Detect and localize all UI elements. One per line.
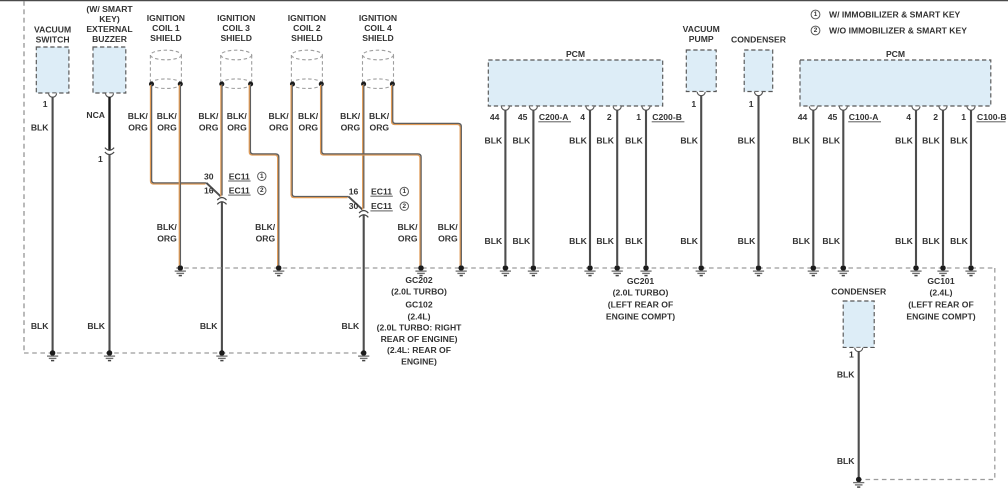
svg-text:ORG: ORG (398, 234, 418, 244)
vacuum pump pin notch (697, 92, 705, 96)
svg-text:BLK/: BLK/ (269, 111, 290, 121)
wire PCM C100 pin BLK to ground (x=916) (915, 110, 917, 265)
svg-text:ORG: ORG (157, 123, 177, 133)
svg-text:30: 30 (349, 201, 359, 211)
svg-text:BLK: BLK (625, 236, 643, 246)
svg-text:BLK: BLK (837, 456, 855, 466)
ground G10 pcm200 (528, 265, 539, 275)
svg-text:BLK: BLK (792, 136, 810, 146)
svg-text:BLK: BLK (822, 136, 840, 146)
svg-text:GC101: GC101 (927, 276, 954, 286)
wire condenser lower BLK to ground G21 (858, 351, 860, 478)
vacuum pump (686, 50, 716, 92)
svg-text:IGNITION: IGNITION (359, 13, 397, 23)
svg-text:BLK: BLK (485, 236, 503, 246)
svg-text:ORG: ORG (227, 123, 247, 133)
svg-text:BLK: BLK (822, 236, 840, 246)
PCM C100 pin notch (809, 106, 817, 110)
legend note 1: W/ IMMOBILIZER & SMART KEY (811, 10, 820, 19)
svg-text:BLK/: BLK/ (227, 111, 248, 121)
svg-text:BLK: BLK (596, 236, 614, 246)
svg-text:CONDENSER: CONDENSER (731, 35, 787, 45)
wire coil3 right pin BLK/ORG to ground G6 (250, 84, 278, 265)
wire splice EC11 no.1 BLK to ground G3 (221, 202, 223, 352)
condenser (lower) pin notch (855, 348, 863, 352)
svg-text:BLK: BLK (569, 136, 587, 146)
PCM C200 pin notch (586, 106, 594, 110)
svg-text:SWITCH: SWITCH (36, 35, 70, 45)
svg-text:2: 2 (403, 203, 407, 210)
ground G7 coil2 GC202 (415, 265, 426, 275)
ground G4 splice2 (358, 350, 369, 360)
splice connector EC11 no.2 symbol (359, 211, 368, 214)
svg-text:C100-B: C100-B (977, 112, 1007, 122)
left dashed page border (23, 1, 25, 353)
wire coil1 left pin BLK/ORG to splice EC11 (152, 84, 207, 183)
wire PCM C200 pin BLK to ground (x=646) (645, 110, 647, 265)
legend ref 1 at splice EC11 no.2 (400, 187, 408, 195)
wire buzzer BLK lower segment (108, 155, 110, 352)
svg-text:BLK/: BLK/ (157, 222, 178, 232)
PCM C200 pin notch (501, 106, 509, 110)
svg-text:44: 44 (798, 112, 808, 122)
svg-text:EC11: EC11 (229, 171, 250, 181)
svg-text:ENGINE COMPT): ENGINE COMPT) (906, 312, 975, 322)
wire PCM C200 pin BLK to ground (x=533.4) (532, 110, 534, 265)
svg-text:BLK: BLK (200, 321, 218, 331)
svg-text:COIL 1: COIL 1 (152, 23, 180, 33)
wire vacuum switch BLK to ground G1 (52, 97, 54, 352)
svg-text:IGNITION: IGNITION (147, 13, 185, 23)
svg-text:BLK: BLK (625, 136, 643, 146)
svg-text:1: 1 (260, 173, 264, 180)
svg-text:ORG: ORG (199, 123, 219, 133)
svg-text:GC201: GC201 (627, 276, 654, 286)
svg-text:BLK/: BLK/ (255, 222, 276, 232)
wire coil4 right pin BLK/ORG to ground G8 (393, 84, 462, 265)
external buzzer (w/ smart key) (93, 47, 126, 93)
wire coil2 left pin BLK/ORG to splice EC11 no.2 (292, 84, 348, 197)
svg-text:4: 4 (580, 112, 585, 122)
right dashed bus drop (861, 268, 995, 480)
svg-text:BLK: BLK (31, 123, 49, 133)
svg-text:(2.0L TURBO): (2.0L TURBO) (391, 287, 447, 297)
PCM (C200) (488, 60, 662, 106)
svg-text:W/ IMMOBILIZER & SMART KEY: W/ IMMOBILIZER & SMART KEY (829, 10, 961, 20)
svg-text:COIL 3: COIL 3 (222, 23, 250, 33)
ground G21 condenser lower (853, 477, 864, 487)
svg-text:BUZZER: BUZZER (92, 34, 128, 44)
svg-text:NCA: NCA (86, 110, 105, 120)
svg-text:ENGINE COMPT): ENGINE COMPT) (606, 312, 675, 322)
svg-text:PUMP: PUMP (689, 34, 714, 44)
svg-text:(2.4L: REAR OF: (2.4L: REAR OF (387, 345, 451, 355)
ground G2 buzzer (104, 350, 115, 360)
svg-text:2: 2 (814, 27, 818, 34)
svg-text:BLK: BLK (485, 136, 503, 146)
svg-text:ORG: ORG (157, 234, 177, 244)
ground G9 pcm200 (500, 265, 511, 275)
svg-text:BLK: BLK (680, 236, 698, 246)
wire PCM C200 pin BLK to ground (x=617.2) (616, 110, 618, 265)
svg-text:BLK: BLK (680, 136, 698, 146)
ignition coil 2 shield (290, 50, 324, 88)
svg-text:SHIELD: SHIELD (362, 33, 394, 43)
condenser (upper) (744, 50, 773, 92)
svg-text:GC202: GC202 (405, 275, 432, 285)
svg-text:BLK: BLK (895, 136, 913, 146)
svg-text:BLK/: BLK/ (397, 222, 418, 232)
svg-text:1: 1 (636, 112, 641, 122)
wire PCM C100 pin BLK to ground (x=813.3) (812, 110, 814, 265)
svg-text:ENGINE): ENGINE) (401, 356, 437, 366)
splice connector EC11 no.1 symbol (217, 198, 226, 201)
legend ref 1 at splice EC11 no.1 (258, 172, 266, 180)
ground G3 splice1 (216, 350, 227, 360)
ground G11 pcm200 (584, 265, 595, 275)
ground G19 pcm100 (937, 265, 948, 275)
svg-text:(LEFT REAR OF: (LEFT REAR OF (608, 300, 673, 310)
svg-text:4: 4 (906, 112, 911, 122)
svg-text:BLK: BLK (596, 136, 614, 146)
wire condenser upper BLK to ground (757, 95, 759, 265)
wire PCM C100 pin BLK to ground (x=971) (970, 110, 972, 265)
svg-text:45: 45 (828, 112, 838, 122)
svg-text:BLK: BLK (922, 136, 940, 146)
svg-text:ORG: ORG (370, 123, 390, 133)
ground G5 coil1 (175, 265, 186, 275)
svg-text:(LEFT REAR OF: (LEFT REAR OF (908, 300, 973, 310)
svg-text:BLK: BLK (895, 236, 913, 246)
legend ref 2 at splice EC11 no.2 (400, 202, 408, 210)
svg-text:1: 1 (961, 112, 966, 122)
svg-text:16: 16 (204, 185, 214, 195)
svg-text:ORG: ORG (299, 123, 319, 133)
svg-text:BLK: BLK (792, 236, 810, 246)
svg-text:BLK: BLK (922, 236, 940, 246)
svg-text:SHIELD: SHIELD (291, 33, 323, 43)
PCM C200 pin notch (642, 106, 650, 110)
wire coil3 left pin BLK/ORG to splice EC11 (221, 84, 223, 196)
svg-text:BLK: BLK (513, 236, 531, 246)
lower ground bus (dashed) (24, 352, 367, 354)
svg-text:BLK/: BLK/ (298, 111, 319, 121)
wire coil1 right pin BLK/ORG to ground G5 (179, 84, 181, 265)
ground G16 pcm100 (808, 265, 819, 275)
vacuum switch (36, 47, 69, 93)
wire vacuum pump BLK to ground (700, 95, 702, 265)
svg-text:VACUUM: VACUUM (34, 25, 71, 35)
svg-text:CONDENSER: CONDENSER (831, 287, 887, 297)
wire coil2 right pin BLK/ORG to ground G7 (322, 84, 421, 265)
svg-text:30: 30 (204, 171, 214, 181)
svg-text:BLK: BLK (837, 370, 855, 380)
ground G13 pcm200 (640, 265, 651, 275)
svg-text:EXTERNAL: EXTERNAL (86, 24, 132, 34)
svg-text:(2.0L TURBO: RIGHT: (2.0L TURBO: RIGHT (377, 323, 463, 333)
svg-text:BLK: BLK (950, 136, 968, 146)
ground G6 coil3 (273, 265, 284, 275)
svg-text:ORG: ORG (256, 234, 276, 244)
svg-text:2: 2 (607, 112, 612, 122)
PCM C100 pin notch (939, 106, 947, 110)
svg-text:BLK/: BLK/ (157, 111, 178, 121)
ground G15 condenser (753, 265, 764, 275)
PCM (C100) (800, 60, 991, 106)
svg-text:16: 16 (349, 187, 359, 197)
svg-text:BLK: BLK (738, 136, 756, 146)
svg-text:PCM: PCM (566, 49, 585, 59)
ground G20 pcm100 (965, 265, 976, 275)
wire splice EC11 no.2 BLK to ground G4 (363, 215, 365, 352)
top border line (0, 0, 1008, 2)
external buzzer pin notch (106, 93, 114, 97)
svg-text:BLK: BLK (569, 236, 587, 246)
svg-text:ORG: ORG (128, 123, 148, 133)
svg-text:PCM: PCM (886, 49, 905, 59)
svg-text:2: 2 (260, 187, 264, 194)
vacuum switch pin notch (49, 93, 57, 97)
ground G1 vacuum switch (47, 350, 58, 360)
svg-text:EC11: EC11 (229, 185, 250, 195)
ignition coil 1 shield (149, 50, 183, 88)
svg-text:GC102: GC102 (405, 300, 432, 310)
wire coil4 left pin BLK/ORG to splice EC11 no.2 (363, 84, 365, 209)
svg-text:EC11: EC11 (371, 187, 392, 197)
svg-text:BLK: BLK (738, 236, 756, 246)
svg-text:ORG: ORG (438, 234, 458, 244)
svg-text:1: 1 (98, 154, 103, 164)
upper ground bus (dashed) (176, 267, 995, 269)
ignition coil 4 shield (361, 50, 395, 88)
svg-text:IGNITION: IGNITION (288, 13, 326, 23)
svg-text:BLK/: BLK/ (369, 111, 390, 121)
svg-text:(2.4L): (2.4L) (408, 311, 431, 321)
svg-text:2: 2 (933, 112, 938, 122)
PCM C100 pin notch (912, 106, 920, 110)
legend ref 2 at splice EC11 no.1 (258, 186, 266, 194)
svg-text:REAR OF ENGINE): REAR OF ENGINE) (381, 334, 458, 344)
svg-text:BLK: BLK (342, 321, 360, 331)
svg-text:W/O IMMOBILIZER & SMART KEY: W/O IMMOBILIZER & SMART KEY (829, 26, 967, 36)
svg-text:(2.0L TURBO): (2.0L TURBO) (613, 288, 669, 298)
ground G18 pcm100 (910, 265, 921, 275)
svg-text:C200-A: C200-A (539, 112, 569, 122)
svg-text:IGNITION: IGNITION (217, 13, 255, 23)
svg-text:1: 1 (403, 188, 407, 195)
svg-text:COIL 2: COIL 2 (293, 23, 321, 33)
svg-text:ORG: ORG (269, 123, 289, 133)
svg-text:44: 44 (490, 112, 500, 122)
svg-text:BLK: BLK (950, 236, 968, 246)
wire PCM C100 pin BLK to ground (x=943) (942, 110, 944, 265)
svg-text:ORG: ORG (341, 123, 361, 133)
svg-text:BLK/: BLK/ (438, 222, 459, 232)
svg-text:BLK: BLK (87, 321, 105, 331)
wire diagonal into splice EC11 no.1 (207, 183, 221, 196)
svg-text:BLK/: BLK/ (128, 111, 149, 121)
ground G8 coil4 (456, 265, 467, 275)
wire PCM C200 pin BLK to ground (x=505.4) (504, 110, 506, 265)
svg-text:1: 1 (749, 99, 754, 109)
svg-text:C100-A: C100-A (849, 112, 879, 122)
svg-text:C200-B: C200-B (652, 112, 682, 122)
wire diagonal into splice EC11 no.2 (349, 197, 363, 210)
svg-text:1: 1 (814, 11, 818, 18)
PCM C200 pin notch (529, 106, 537, 110)
svg-text:1: 1 (43, 99, 48, 109)
svg-text:BLK/: BLK/ (198, 111, 219, 121)
ignition coil 3 shield (219, 50, 253, 88)
condenser (upper) pin notch (755, 92, 763, 96)
svg-text:BLK: BLK (31, 321, 49, 331)
svg-text:COIL 4: COIL 4 (364, 23, 392, 33)
svg-text:BLK/: BLK/ (340, 111, 361, 121)
PCM C100 pin notch (839, 106, 847, 110)
PCM C100 pin notch (967, 106, 975, 110)
PCM C200 pin notch (613, 106, 621, 110)
svg-text:1: 1 (691, 99, 696, 109)
svg-text:45: 45 (518, 112, 528, 122)
svg-text:1: 1 (849, 350, 854, 360)
ground G12 pcm200 (612, 265, 623, 275)
svg-text:KEY): KEY) (99, 14, 120, 24)
svg-text:(2.4L): (2.4L) (930, 288, 953, 298)
wire buzzer NCA upper segment (108, 97, 110, 150)
wire PCM C200 pin BLK to ground (x=590) (589, 110, 591, 265)
in-line connector on buzzer wire (105, 148, 114, 151)
legend note 2: W/O IMMOBILIZER & SMART KEY (811, 26, 820, 35)
svg-text:BLK: BLK (513, 136, 531, 146)
svg-text:SHIELD: SHIELD (150, 33, 182, 43)
svg-text:EC11: EC11 (371, 201, 392, 211)
svg-text:(W/ SMART: (W/ SMART (86, 4, 133, 14)
ground G17 pcm100 (838, 265, 849, 275)
wire PCM C100 pin BLK to ground (x=843.3) (842, 110, 844, 265)
svg-text:SHIELD: SHIELD (220, 33, 252, 43)
ground G14 pump (696, 265, 707, 275)
svg-text:VACUUM: VACUUM (683, 24, 720, 34)
condenser (lower) (843, 301, 874, 347)
